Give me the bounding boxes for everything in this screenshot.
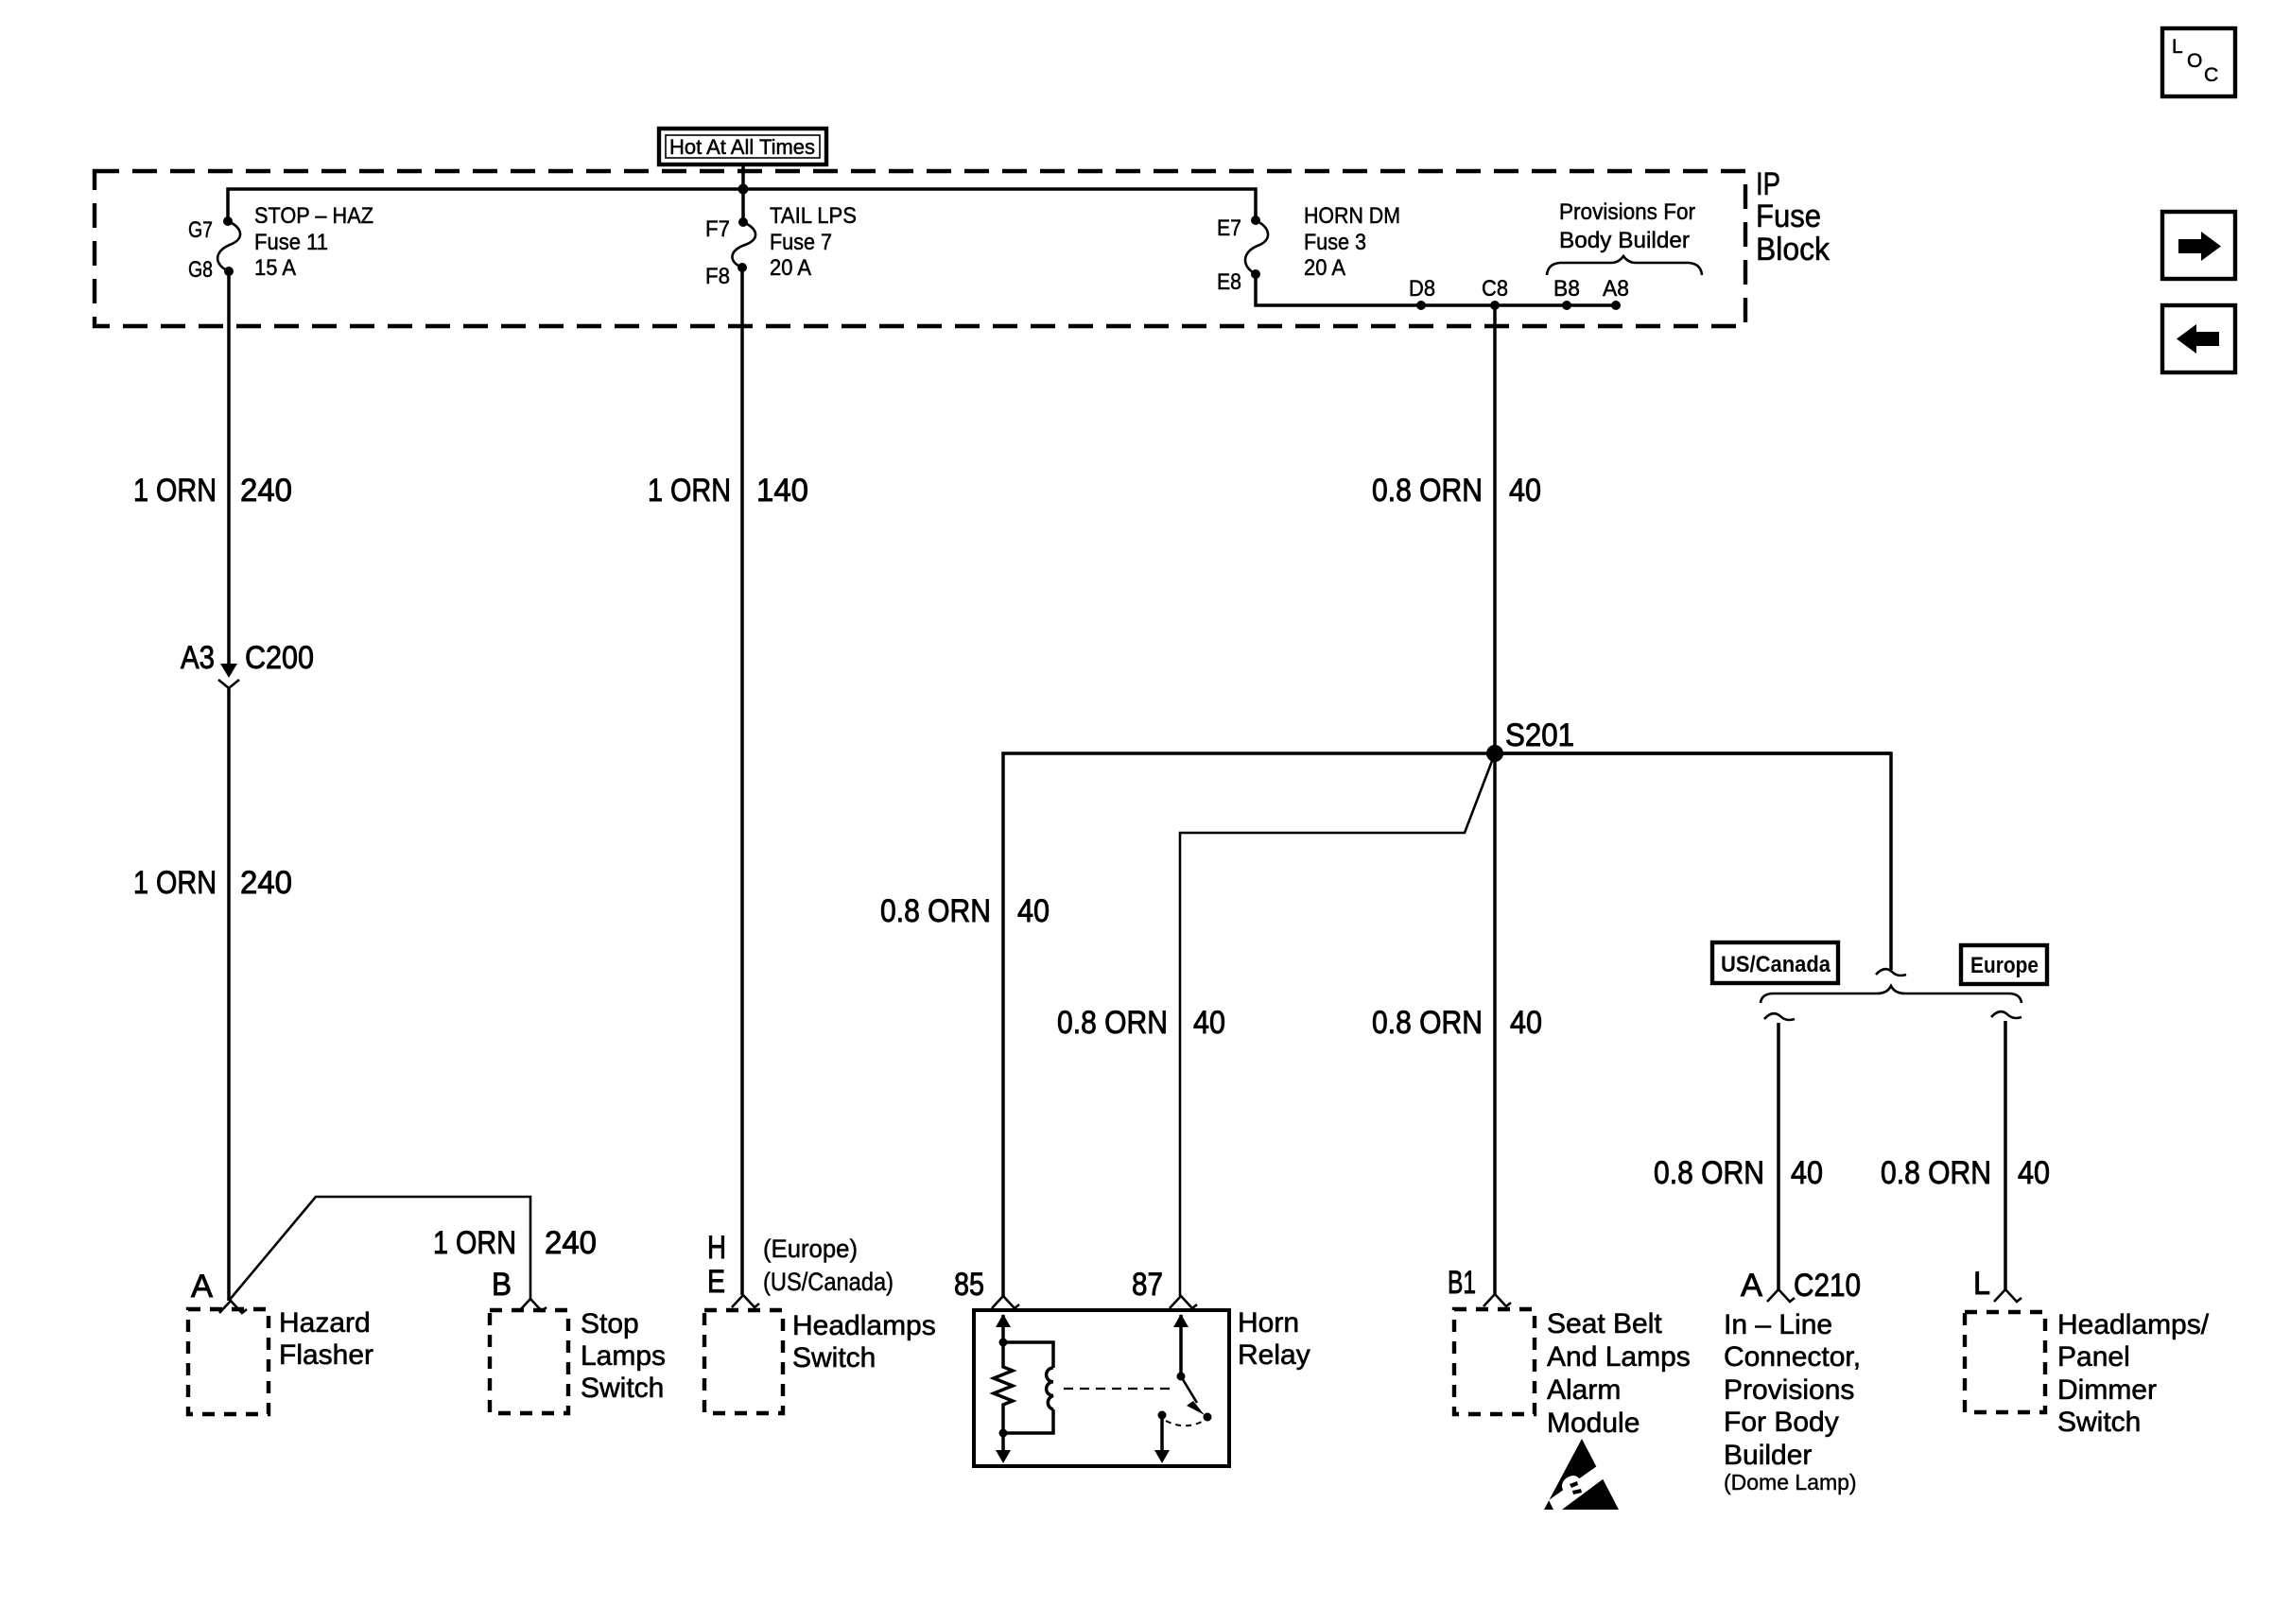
svg-text:G8: G8 bbox=[188, 257, 213, 283]
node C8 bbox=[1490, 301, 1500, 310]
Europe tag box bbox=[1961, 945, 2047, 984]
svg-text:G7: G7 bbox=[188, 217, 213, 243]
svg-text:Hot At All Times: Hot At All Times bbox=[669, 135, 815, 159]
svg-text:Lamps: Lamps bbox=[581, 1340, 666, 1372]
svg-text:1 ORN: 1 ORN bbox=[133, 865, 217, 901]
svg-text:D8: D8 bbox=[1409, 276, 1435, 302]
svg-text:Fuse 7: Fuse 7 bbox=[770, 230, 832, 255]
wire: S201 tap to horn relay 87 bbox=[1180, 761, 1492, 1296]
svg-text:TAIL LPS: TAIL LPS bbox=[770, 203, 857, 229]
Horn Relay label bbox=[1238, 1307, 1310, 1371]
svg-text:40: 40 bbox=[1509, 473, 1541, 509]
LOC reference box bbox=[2162, 28, 2235, 96]
svg-text:Builder: Builder bbox=[1724, 1440, 1812, 1471]
svg-text:Dimmer: Dimmer bbox=[2057, 1374, 2157, 1406]
svg-text:40: 40 bbox=[1510, 1005, 1542, 1041]
brace over B8-A8 bbox=[1547, 256, 1702, 275]
IP fuse block dashed box bbox=[95, 171, 1745, 326]
svg-text:Block: Block bbox=[1756, 232, 1831, 268]
svg-text:Hazard: Hazard bbox=[279, 1307, 371, 1339]
wire: battery bus from Hot At All Times bbox=[741, 164, 745, 222]
terminal chevron in-line connector A bbox=[1767, 1289, 1795, 1302]
svg-text:And Lamps: And Lamps bbox=[1547, 1341, 1691, 1373]
svg-text:40: 40 bbox=[1193, 1005, 1225, 1041]
wire: C8 down to S201 bbox=[1493, 305, 1497, 753]
svg-text:Switch: Switch bbox=[581, 1373, 664, 1404]
wire: S201 bus to horn relay 85 bbox=[1003, 753, 1891, 1296]
Seat Belt And Lamps Alarm Module label bbox=[1547, 1308, 1691, 1439]
svg-text:C: C bbox=[2204, 64, 2218, 86]
svg-text:Relay: Relay bbox=[1238, 1339, 1310, 1371]
svg-text:Switch: Switch bbox=[2057, 1407, 2141, 1438]
svg-text:85: 85 bbox=[954, 1267, 984, 1303]
svg-text:E8: E8 bbox=[1217, 269, 1241, 295]
svg-text:20 A: 20 A bbox=[1304, 255, 1345, 281]
svg-text:C210: C210 bbox=[1794, 1268, 1861, 1304]
wire: S201 right branch to country split bbox=[1495, 753, 1891, 970]
wire: hazard to stop lamps switch branch bbox=[229, 1197, 530, 1301]
in-line connector C200 pin A3 bbox=[181, 640, 314, 688]
node D8 bbox=[1416, 301, 1426, 310]
svg-text:Body Builder: Body Builder bbox=[1559, 228, 1690, 253]
svg-text:40: 40 bbox=[2018, 1155, 2050, 1191]
terminal chevron relay 87 bbox=[1170, 1296, 1197, 1308]
svg-text:40: 40 bbox=[1791, 1155, 1823, 1191]
wire: Europe branch to dimmer switch bbox=[1881, 1011, 2050, 1289]
svg-text:F7: F7 bbox=[705, 216, 730, 242]
wire: fuse 3 output bus to provisions bbox=[1256, 274, 1616, 305]
wire: fuse 7 output down to headlamps switch bbox=[740, 268, 744, 1295]
wire: C200 down to hazard flasher bbox=[227, 688, 231, 1301]
svg-text:20 A: 20 A bbox=[770, 255, 811, 281]
svg-text:A3: A3 bbox=[181, 640, 215, 676]
In-Line Connector label bbox=[1724, 1309, 1861, 1494]
relay actuation dashed link bbox=[1064, 1388, 1175, 1390]
Stop Lamps Switch label bbox=[581, 1308, 666, 1404]
relay contact travel dashed arc bbox=[1166, 1421, 1202, 1425]
node A8 bbox=[1611, 301, 1621, 310]
relay switch feed wire with arrow bbox=[1173, 1314, 1189, 1381]
svg-text:1 ORN: 1 ORN bbox=[648, 473, 731, 509]
svg-text:C200: C200 bbox=[245, 640, 314, 676]
svg-text:Connector,: Connector, bbox=[1724, 1341, 1861, 1373]
headlamps/panel dimmer connector box bbox=[1965, 1312, 2045, 1412]
svg-text:Switch: Switch bbox=[792, 1342, 876, 1373]
svg-text:In – Line: In – Line bbox=[1724, 1309, 1832, 1340]
svg-text:240: 240 bbox=[240, 473, 292, 509]
svg-text:1 ORN: 1 ORN bbox=[133, 473, 217, 509]
svg-text:A8: A8 bbox=[1603, 276, 1629, 302]
Provisions For Body Builder label bbox=[1547, 199, 1702, 275]
svg-text:A: A bbox=[191, 1269, 213, 1304]
svg-text:87: 87 bbox=[1132, 1267, 1163, 1303]
Hot At All Times power box bbox=[659, 129, 826, 164]
svg-text:Fuse: Fuse bbox=[1756, 199, 1821, 234]
terminal chevron relay 85 bbox=[992, 1296, 1019, 1308]
svg-text:240: 240 bbox=[545, 1225, 597, 1261]
svg-text:(US/Canada): (US/Canada) bbox=[763, 1268, 894, 1296]
svg-text:Fuse 11: Fuse 11 bbox=[254, 230, 328, 255]
wire: US/Canada branch to C210 bbox=[1654, 1013, 1823, 1289]
node B8 bbox=[1562, 301, 1571, 310]
terminal chevron headlamps H/E bbox=[732, 1295, 759, 1307]
svg-text:1 ORN: 1 ORN bbox=[433, 1225, 516, 1261]
fuse F7 TAIL LPS bbox=[705, 203, 857, 289]
svg-text:0.8 ORN: 0.8 ORN bbox=[1057, 1005, 1168, 1041]
wire: fuse 11 output down to C200 bbox=[227, 271, 231, 664]
svg-text:Headlamps/: Headlamps/ bbox=[2057, 1309, 2210, 1340]
fuse F11 STOP-HAZ bbox=[188, 203, 373, 283]
horn relay box bbox=[974, 1310, 1229, 1466]
svg-text:0.8 ORN: 0.8 ORN bbox=[1372, 473, 1483, 509]
wire: S201 down to seat belt module bbox=[1493, 753, 1497, 1294]
svg-text:HORN DM: HORN DM bbox=[1304, 203, 1400, 229]
fuse F3 HORN DM bbox=[1217, 203, 1400, 295]
svg-text:B: B bbox=[492, 1267, 512, 1303]
svg-text:0.8 ORN: 0.8 ORN bbox=[1881, 1155, 1991, 1191]
relay coil bbox=[1003, 1342, 1053, 1433]
relay coil feed wire with arrow bbox=[996, 1314, 1011, 1347]
terminal chevron dimmer L bbox=[1994, 1289, 2021, 1302]
forward arrow box bbox=[2162, 212, 2235, 279]
svg-text:Headlamps: Headlamps bbox=[792, 1310, 936, 1341]
svg-text:S201: S201 bbox=[1505, 717, 1574, 753]
Hazard Flasher label bbox=[279, 1307, 373, 1371]
svg-text:O: O bbox=[2187, 50, 2202, 72]
svg-text:Seat Belt: Seat Belt bbox=[1547, 1308, 1662, 1339]
svg-text:0.8 ORN: 0.8 ORN bbox=[880, 893, 991, 929]
svg-text:For Body: For Body bbox=[1724, 1407, 1839, 1438]
terminal chevron hazard A bbox=[219, 1301, 247, 1313]
svg-text:240: 240 bbox=[240, 865, 292, 901]
svg-text:Panel: Panel bbox=[2057, 1341, 2130, 1373]
Headlamps/Panel Dimmer Switch label bbox=[2057, 1309, 2210, 1438]
svg-text:40: 40 bbox=[1017, 893, 1050, 929]
relay ground arrow bbox=[996, 1433, 1011, 1463]
svg-text:H: H bbox=[707, 1230, 726, 1266]
svg-text:Europe: Europe bbox=[1970, 953, 2039, 978]
svg-text:Provisions For: Provisions For bbox=[1559, 199, 1695, 225]
svg-text:0.8 ORN: 0.8 ORN bbox=[1654, 1155, 1764, 1191]
node S201 bbox=[1486, 745, 1503, 762]
headlamps switch connector box bbox=[704, 1310, 783, 1413]
svg-text:15 A: 15 A bbox=[254, 255, 296, 281]
svg-text:(Europe): (Europe) bbox=[763, 1235, 858, 1263]
svg-text:A: A bbox=[1741, 1268, 1762, 1304]
IP Fuse Block label bbox=[1756, 166, 1831, 268]
svg-text:Horn: Horn bbox=[1238, 1307, 1299, 1339]
wire: top feed bus bbox=[228, 189, 1256, 221]
svg-text:Alarm: Alarm bbox=[1547, 1374, 1621, 1406]
svg-text:STOP – HAZ: STOP – HAZ bbox=[254, 203, 373, 229]
svg-text:F8: F8 bbox=[705, 264, 730, 289]
svg-text:Fuse 3: Fuse 3 bbox=[1304, 230, 1366, 255]
svg-text:0.8 ORN: 0.8 ORN bbox=[1372, 1005, 1483, 1041]
svg-text:Stop: Stop bbox=[581, 1308, 639, 1339]
svg-text:Module: Module bbox=[1547, 1408, 1640, 1439]
svg-text:L: L bbox=[1973, 1266, 1990, 1302]
svg-text:E7: E7 bbox=[1217, 216, 1241, 241]
seat belt module connector box bbox=[1454, 1309, 1535, 1414]
back arrow box bbox=[2162, 305, 2235, 372]
node: bus junction at hot feed bbox=[738, 184, 749, 195]
relay coil bottom node bbox=[999, 1429, 1008, 1438]
US/Canada tag box bbox=[1712, 942, 1838, 983]
svg-text:Flasher: Flasher bbox=[279, 1339, 373, 1371]
svg-text:B8: B8 bbox=[1553, 276, 1580, 302]
terminal chevron stop lamps B bbox=[519, 1299, 547, 1311]
country split brace bbox=[1761, 986, 2021, 1003]
svg-text:E: E bbox=[707, 1264, 725, 1300]
svg-text:Provisions: Provisions bbox=[1724, 1374, 1854, 1406]
svg-text:140: 140 bbox=[756, 473, 808, 509]
relay switch arm bbox=[1181, 1376, 1212, 1422]
svg-text:(Dome Lamp): (Dome Lamp) bbox=[1724, 1470, 1857, 1494]
stop lamps switch connector box bbox=[490, 1310, 568, 1413]
Headlamps Switch label bbox=[792, 1310, 936, 1373]
wire break symbol bbox=[1876, 969, 1906, 976]
svg-text:US/Canada: US/Canada bbox=[1721, 952, 1831, 977]
svg-text:IP: IP bbox=[1756, 166, 1780, 202]
terminal chevron seat belt B1 bbox=[1484, 1294, 1511, 1306]
relay fixed contact with arrow bbox=[1154, 1411, 1170, 1464]
relay suppression resistor bbox=[994, 1342, 1013, 1433]
ESD sensitive symbol bbox=[1544, 1439, 1619, 1510]
svg-text:L: L bbox=[2172, 36, 2183, 58]
svg-text:C8: C8 bbox=[1482, 276, 1508, 302]
hazard flasher connector box bbox=[188, 1309, 269, 1414]
svg-text:B1: B1 bbox=[1448, 1265, 1476, 1301]
